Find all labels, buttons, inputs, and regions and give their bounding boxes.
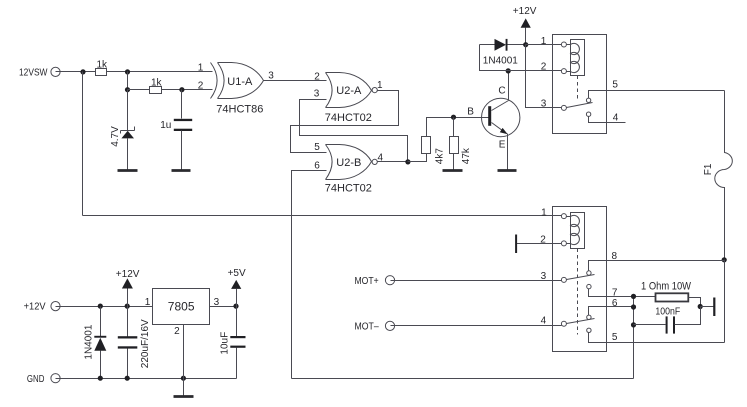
wire 7805 pin2 [183, 325, 185, 396]
svg-text:6: 6 [314, 160, 320, 171]
resistor R5 1 Ohm 10W [641, 280, 692, 301]
svg-text:1N4001: 1N4001 [483, 55, 518, 66]
wire diode leg to collector node [480, 45, 562, 71]
junction C2 bottom [125, 376, 130, 381]
svg-text:MOT–: MOT– [355, 322, 380, 333]
svg-text:3: 3 [268, 71, 274, 82]
svg-text:3: 3 [541, 99, 547, 110]
svg-text:6: 6 [612, 298, 618, 309]
svg-text:7805: 7805 [168, 300, 195, 314]
junction base node [451, 115, 456, 120]
fuse F1 [703, 91, 732, 260]
wire K1 pin5 to fuse bus [589, 91, 725, 99]
wire U1-A out to U2-A in2 [264, 80, 327, 82]
ground (emitter) [498, 169, 517, 172]
junction pin7 node [631, 294, 636, 299]
junction collector node [506, 68, 511, 73]
capacitor C2 220uF/16V [118, 307, 151, 379]
junction cap node [631, 322, 636, 327]
wire 12VSW to R1 [56, 71, 96, 73]
terminal +12V (psu) [24, 302, 61, 313]
wire K2 pin8 to bus [589, 261, 725, 271]
junction pin8 bus [722, 257, 727, 262]
svg-text:5: 5 [612, 332, 618, 343]
relay K1 [541, 35, 619, 134]
capacitor C4 100nF [634, 306, 701, 333]
svg-text:1: 1 [145, 297, 151, 308]
svg-text:B: B [467, 106, 474, 117]
junction D2 top [98, 304, 103, 309]
wire K1 pin4 stub [589, 117, 626, 123]
wire down to R2 node [127, 72, 129, 90]
svg-text:47k: 47k [461, 147, 472, 164]
junction C2 top [125, 304, 130, 309]
svg-text:1: 1 [377, 80, 383, 91]
wire 7805 out [210, 306, 237, 308]
wire R5 to right node [689, 298, 701, 307]
wire MOT+ to K2 pin3 [391, 280, 562, 282]
xor gate U1-A 74HCT86 [198, 62, 274, 115]
wire R1 to U1-A pin 1 [107, 71, 213, 73]
wire R3 to base node [427, 118, 489, 137]
ground (K2 pin2 bar) [515, 235, 561, 254]
zener diode 4.7V [110, 90, 134, 170]
ground (47k) [443, 169, 463, 172]
junction U2-B output node [405, 159, 410, 164]
capacitor C1 1u [160, 90, 192, 170]
svg-text:74HCT86: 74HCT86 [216, 103, 263, 115]
svg-text:1N4001: 1N4001 [84, 324, 95, 359]
junction R2 node [125, 87, 130, 92]
svg-text:74HCT02: 74HCT02 [325, 182, 372, 194]
supply +12V arrow (psu) [116, 269, 140, 306]
svg-text:C: C [498, 85, 505, 96]
wire node to R2 [128, 89, 150, 91]
capacitor C3 10uF [220, 307, 246, 379]
supply +5V arrow [228, 268, 246, 306]
svg-text:U1-A: U1-A [227, 76, 253, 88]
transistor Q1 [467, 85, 520, 150]
svg-text:5: 5 [314, 142, 320, 153]
svg-text:MOT+: MOT+ [355, 276, 379, 287]
svg-text:5: 5 [612, 79, 618, 90]
wire K2 pin5 to bus [589, 333, 725, 343]
junction 7805 gnd [181, 376, 186, 381]
svg-text:F1: F1 [703, 163, 714, 175]
wire U2-A out feedback to U2-B in5 [291, 91, 399, 153]
resistor R1 1k [96, 59, 109, 75]
svg-text:E: E [499, 139, 506, 150]
svg-text:U2-B: U2-B [336, 157, 361, 169]
junction +12V node [523, 42, 528, 47]
junction RC top node [125, 69, 130, 74]
svg-text:220uF/16V: 220uF/16V [140, 319, 151, 368]
ground (7805) [174, 395, 194, 398]
terminal GND [27, 374, 60, 385]
svg-text:7: 7 [612, 288, 618, 299]
svg-text:12VSW: 12VSW [19, 67, 48, 78]
terminal MOT+ [355, 276, 395, 287]
svg-text:4.7V: 4.7V [110, 126, 121, 147]
wire GND rail [56, 348, 237, 379]
terminal 12VSW [19, 67, 60, 78]
wire +12V to K1 pin1 [526, 44, 562, 46]
wire bus down to K2 pin5 line [724, 260, 726, 343]
svg-text:2: 2 [541, 61, 547, 72]
resistor R2 1k [150, 78, 163, 94]
wire emitter [507, 134, 509, 170]
svg-text:+12V: +12V [24, 302, 46, 313]
svg-text:U2-A: U2-A [336, 85, 362, 97]
svg-text:74HCT02: 74HCT02 [325, 112, 372, 124]
wire 12VSW rail to K2 pin1 [83, 215, 562, 217]
wire U2-B out feedback to U2-A in3 [300, 100, 408, 162]
svg-text:4: 4 [541, 315, 547, 326]
svg-text:100nF: 100nF [655, 306, 680, 317]
svg-text:4: 4 [613, 113, 619, 124]
wire R2 to U1-A pin 2 [162, 89, 213, 91]
svg-text:+12V: +12V [513, 6, 537, 17]
terminal MOT- [355, 321, 395, 332]
svg-text:2: 2 [314, 72, 320, 83]
wire K2 pin6 [589, 307, 634, 316]
wire K2 pin7 to R5 [589, 289, 656, 297]
nor gate U2-B 74HCT02 [314, 142, 383, 194]
wire U2-B in6 from bottom rail [292, 171, 327, 379]
resistor R4 47k [450, 118, 472, 170]
diode D1 1N4001 [480, 39, 526, 66]
relay K2 [540, 207, 618, 352]
svg-text:1k: 1k [151, 78, 163, 89]
svg-text:4k7: 4k7 [435, 148, 446, 165]
svg-text:1u: 1u [160, 120, 171, 131]
nor gate U2-A 74HCT02 [314, 72, 383, 124]
junction 12VSW branch [80, 69, 85, 74]
wire output node to R3 [408, 154, 427, 162]
svg-text:3: 3 [314, 89, 320, 100]
junction pin6 node [631, 304, 636, 309]
svg-text:2: 2 [198, 80, 204, 91]
svg-text:+5V: +5V [228, 268, 246, 279]
svg-text:GND: GND [27, 374, 45, 385]
svg-text:10uF: 10uF [220, 332, 231, 355]
svg-text:1: 1 [198, 62, 204, 73]
wire bottom rail [292, 378, 634, 380]
wire MOT- to K2 pin4 [391, 325, 562, 327]
ground (C1) [172, 169, 191, 172]
ground (snubber bar) [701, 298, 716, 317]
wire snubber vertical [633, 297, 635, 379]
svg-text:1k: 1k [97, 59, 109, 70]
junction C1 node [179, 87, 184, 92]
svg-text:1 Ohm 10W: 1 Ohm 10W [641, 280, 692, 292]
svg-text:+12V: +12V [116, 269, 140, 280]
wire 12VSW down to K2 pin1 rail [82, 72, 84, 216]
resistor R3 4k7 [422, 137, 446, 165]
regulator U3 7805 [145, 289, 220, 337]
svg-text:1: 1 [541, 207, 547, 218]
junction D2 bottom [98, 376, 103, 381]
wire collector [508, 71, 510, 101]
svg-text:1: 1 [541, 36, 547, 47]
diode D2 1N4001 [84, 307, 107, 379]
junction +5V node [233, 304, 238, 309]
svg-text:2: 2 [174, 326, 180, 337]
wire +12V rail [56, 306, 153, 308]
ground (zener) [118, 169, 138, 172]
wire +12V down to K1 pin3 [526, 45, 562, 108]
junction right RC node [698, 304, 703, 309]
supply +12V (top) [513, 6, 537, 45]
